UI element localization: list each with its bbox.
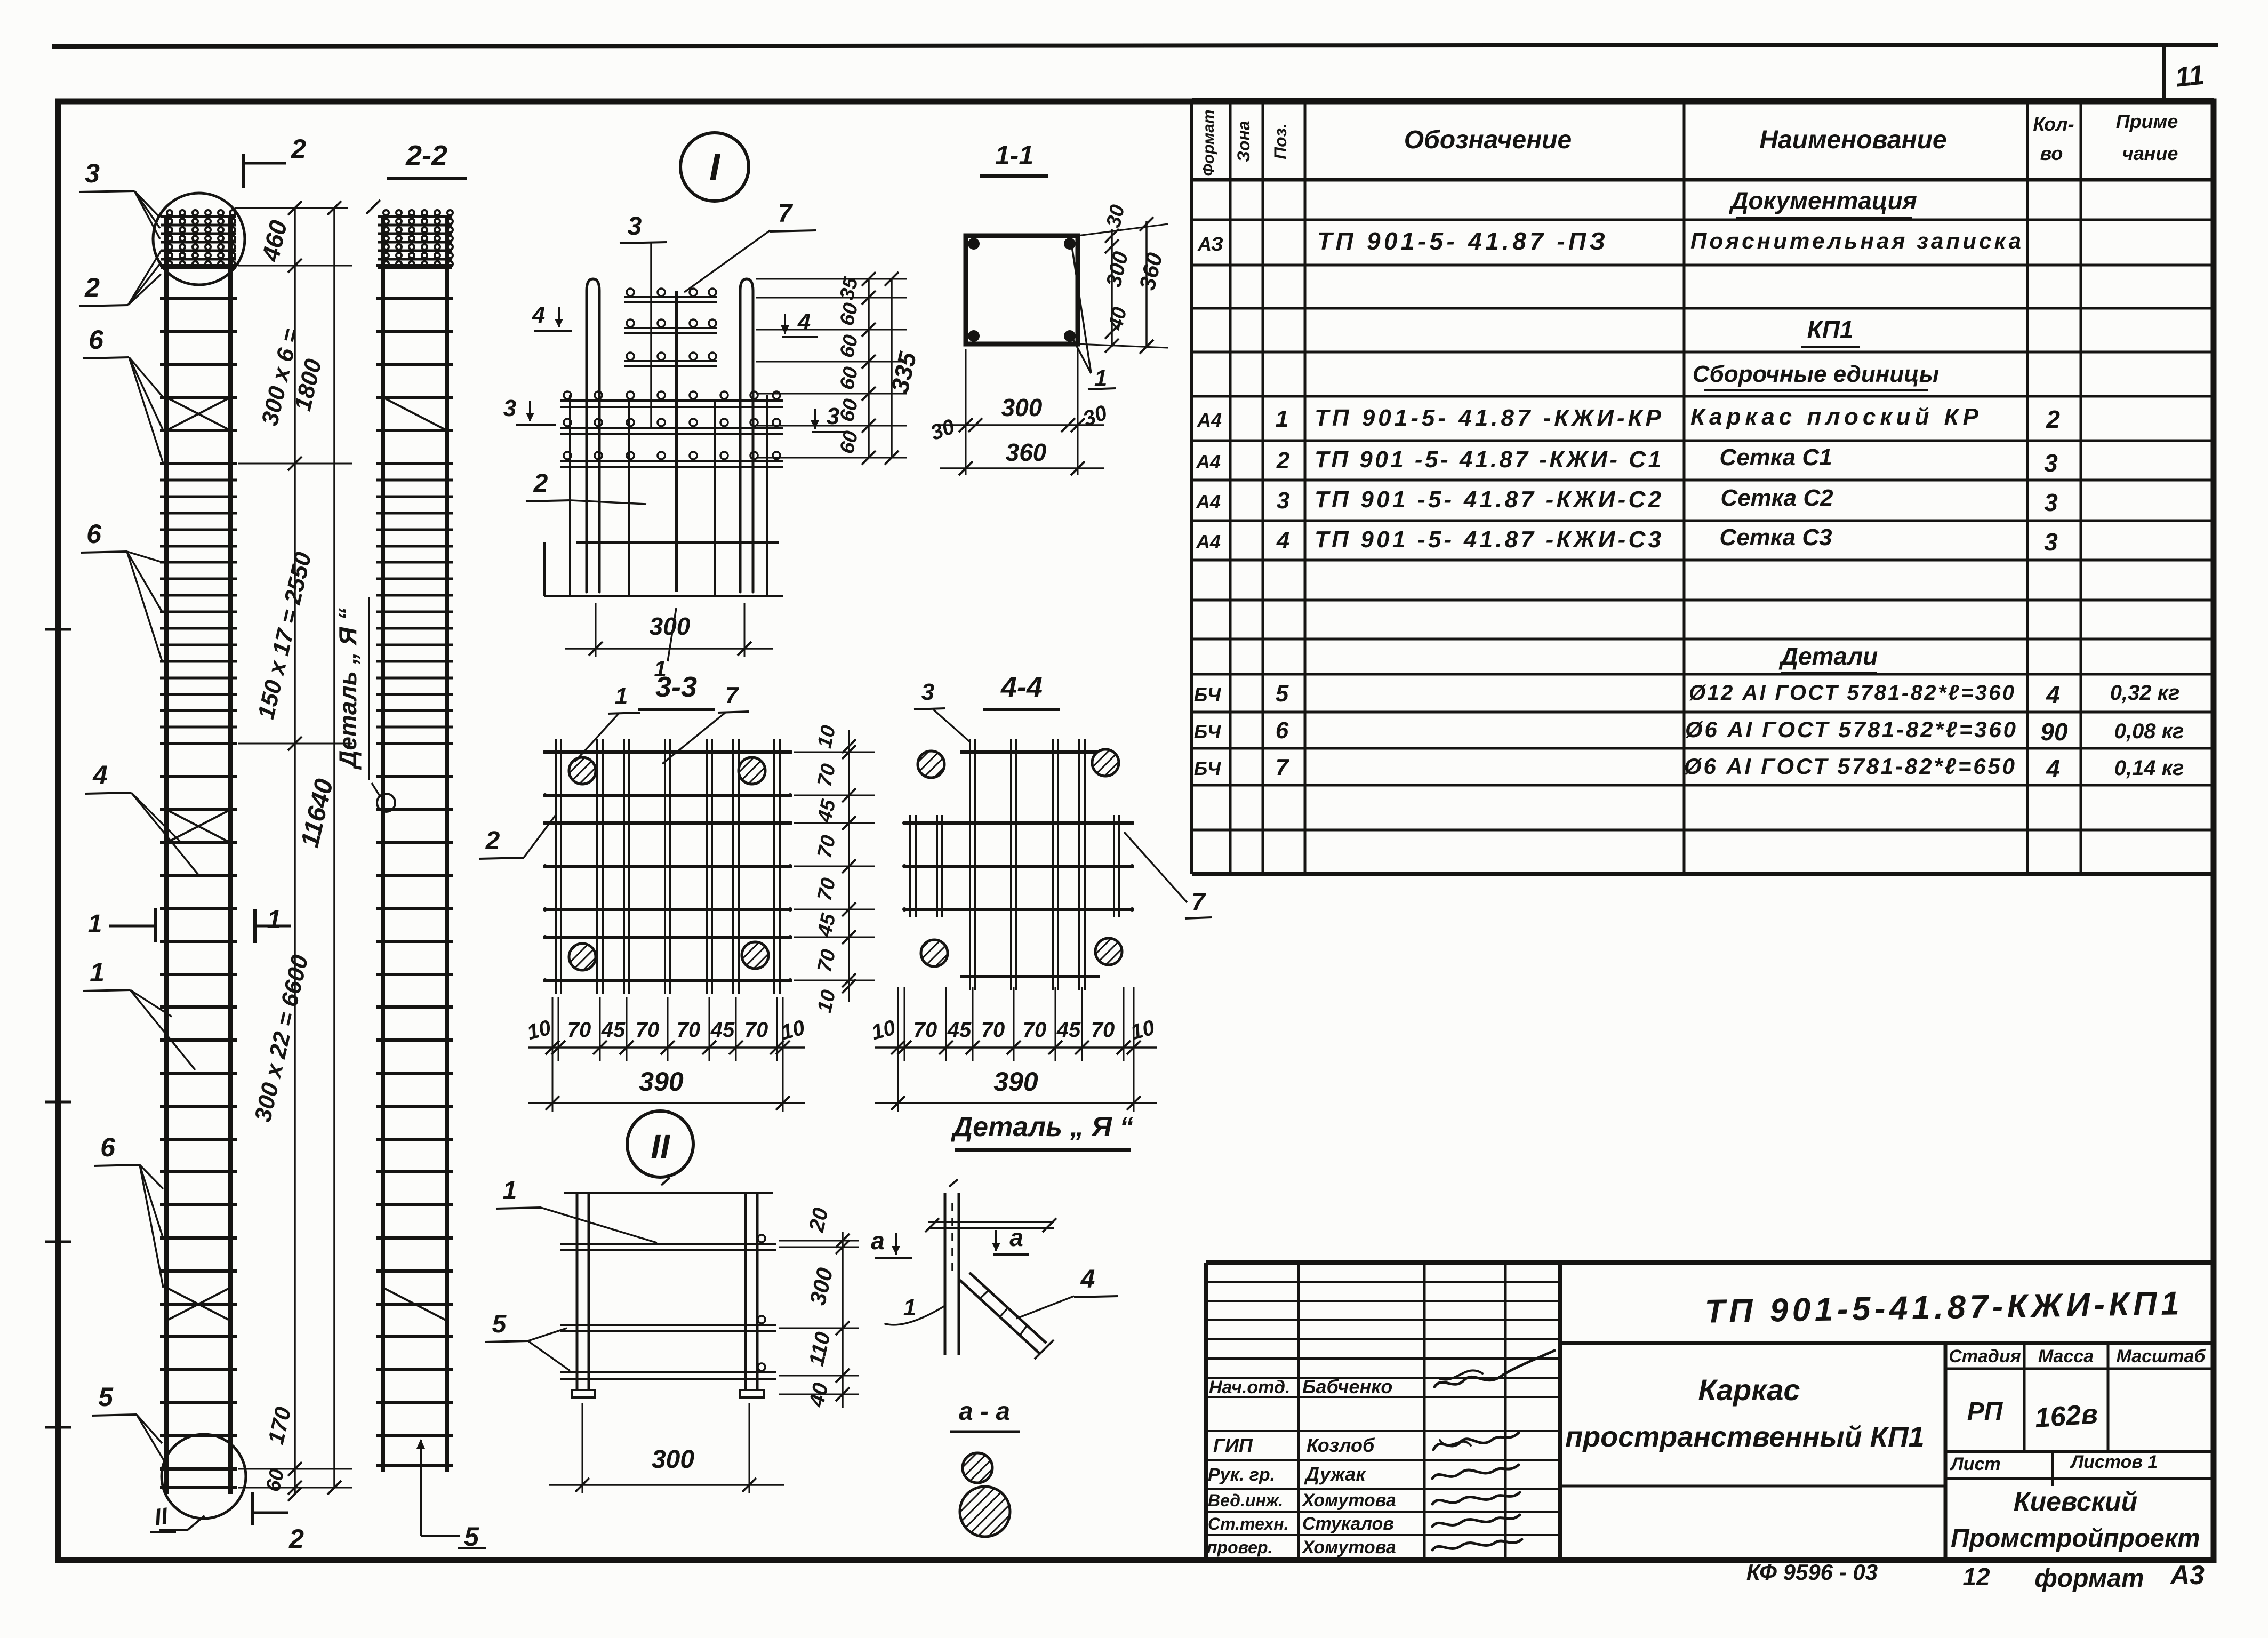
svg-text:Лист: Лист [1949,1454,2000,1474]
view I: inner verticals [569,395,571,596]
svg-text:70: 70 [567,1018,591,1042]
svg-text:БЧ: БЧ [1194,721,1222,742]
svg-text:Нач.отд.: Нач.отд. [1209,1377,1290,1397]
svg-text:3: 3 [1277,488,1289,514]
svg-text:Поз.: Поз. [1271,123,1290,159]
svg-text:2: 2 [485,827,500,855]
svg-text:3: 3 [628,212,642,241]
svg-text:0,32 кг: 0,32 кг [2110,681,2180,705]
cage 2-2: diagonal brace lower [383,1288,447,1321]
svg-text:4: 4 [1080,1265,1095,1293]
svg-text:КФ 9596 - 03: КФ 9596 - 03 [1746,1560,1878,1585]
mesh 4-4: short top and bottom bars [960,750,1100,754]
svg-text:1: 1 [1094,365,1107,391]
view 3-3 overall dimension 390 [528,1102,805,1104]
svg-text:5: 5 [98,1382,114,1412]
cage KP1 elevation: rungs zone 150x17 [160,479,237,482]
view 1-1: hoop square [966,236,1078,344]
svg-text:Зона: Зона [1234,121,1253,162]
svg-text:II: II [651,1128,670,1166]
svg-text:Хомутова: Хомутова [1301,1537,1396,1557]
callout 7 view 4-4 [1124,832,1187,902]
svg-text:70: 70 [913,1018,937,1042]
cage KP1 elevation: X brace lower [166,1288,230,1321]
svg-text:Рук. гр.: Рук. гр. [1208,1465,1275,1485]
detail circle I top [153,193,245,285]
svg-text:ТП 901-5- 41.87 -ПЗ: ТП 901-5- 41.87 -ПЗ [1317,227,1605,255]
detail Ya marker circle [377,794,395,812]
svg-text:1: 1 [1276,406,1288,432]
svg-text:а: а [871,1227,885,1255]
mesh 3-3: corner bar sections [569,757,596,784]
view 3-3 bottom dimension chain [552,997,554,1061]
svg-text:3: 3 [2044,528,2058,556]
svg-text:Каркас плоский КР: Каркас плоский КР [1690,404,1979,430]
svg-text:Каркас: Каркас [1698,1373,1800,1407]
svg-text:I: I [709,146,721,189]
svg-text:45: 45 [947,1018,972,1042]
svg-text:Козлоб: Козлоб [1307,1434,1375,1456]
view I title circle [680,133,749,201]
svg-text:КП1: КП1 [1807,316,1854,343]
svg-text:Сборочные единицы: Сборочные единицы [1693,361,1940,387]
svg-text:6: 6 [86,519,102,549]
view I: top tie bars [624,296,717,298]
view I: right post [740,279,753,592]
view II: top cut line [564,1192,773,1194]
view 1-1: leader to corner bars 1 [1072,246,1091,373]
cage 2-2: right rail [445,215,449,1472]
svg-text:390: 390 [993,1067,1038,1097]
svg-text:Приме: Приме [2116,110,2178,132]
svg-text:Масса: Масса [2038,1346,2094,1367]
svg-text:А4: А4 [1197,409,1222,431]
label II under cage [160,1516,204,1530]
svg-text:0,08 кг: 0,08 кг [2114,720,2184,743]
svg-text:70: 70 [677,1018,701,1042]
view 3-3 right dimension chain [794,752,875,753]
view 1-1: corner bars [968,238,980,250]
svg-text:ТП 901 -5- 41.87 -КЖИ-С3: ТП 901 -5- 41.87 -КЖИ-С3 [1315,526,1661,553]
svg-text:БЧ: БЧ [1194,684,1222,706]
view I: main tie bars [560,399,783,402]
cage KP1 elevation: X brace mid [166,810,230,843]
view I bottom dimension 300 [595,603,597,657]
svg-text:2: 2 [288,1524,304,1554]
svg-text:300: 300 [650,612,691,640]
svg-text:Сетка С3: Сетка С3 [1719,524,1832,550]
svg-text:70: 70 [981,1018,1005,1042]
cage KP1 elevation: top mesh zone [161,215,236,218]
svg-text:Масштаб: Масштаб [2117,1346,2206,1367]
svg-text:6: 6 [100,1132,116,1162]
svg-text:Ø6 АI ГОСТ 5781-82*ℓ=360: Ø6 АI ГОСТ 5781-82*ℓ=360 [1685,717,2016,742]
svg-text:Хомутова: Хомутова [1301,1490,1396,1511]
svg-text:а: а [1009,1224,1023,1251]
svg-text:2: 2 [1276,448,1290,474]
svg-text:чание: чание [2122,142,2178,164]
view II: tie bars [560,1243,776,1245]
title block drawing name [1944,1343,1948,1560]
svg-text:12: 12 [1962,1563,1990,1591]
view I: left post [587,279,599,592]
svg-text:300: 300 [652,1445,694,1474]
svg-text:4: 4 [797,309,811,335]
view II: right post [744,1193,747,1390]
svg-text:Обозначение: Обозначение [1404,126,1572,154]
svg-text:АЗ: АЗ [1197,233,1223,255]
svg-text:6: 6 [1276,717,1289,744]
svg-text:Вед.инж.: Вед.инж. [1208,1491,1283,1510]
svg-text:1: 1 [267,906,282,934]
svg-text:1: 1 [88,910,102,938]
cage KP1 elevation: rungs zone 300x6 [160,264,237,267]
svg-text:162в: 162в [2034,1399,2099,1434]
svg-text:Ø12 АI ГОСТ 5781-82*ℓ=360: Ø12 АI ГОСТ 5781-82*ℓ=360 [1689,681,2014,705]
detail Ya: hidden dash line [951,1203,953,1275]
svg-text:а - а: а - а [959,1397,1010,1426]
cage 2-2: left rail [381,215,385,1472]
svg-text:Сетка С1: Сетка С1 [1719,444,1832,470]
detail circle II bottom [162,1434,246,1519]
svg-text:Наименование: Наименование [1759,126,1946,154]
svg-text:45: 45 [601,1018,626,1042]
svg-text:Деталь „ Я “: Деталь „ Я “ [951,1112,1134,1142]
svg-text:Бабченко: Бабченко [1302,1376,1392,1397]
page top rule [52,45,2218,46]
svg-text:4: 4 [2046,755,2060,782]
svg-text:4: 4 [2046,681,2060,708]
section mark 2 top [242,154,245,188]
svg-text:2: 2 [84,273,100,302]
title block signature grid [1297,1263,1300,1560]
view I right dimension chain [756,278,907,280]
svg-text:3-3: 3-3 [655,671,697,703]
svg-text:во: во [2040,142,2063,164]
svg-text:2: 2 [291,134,306,164]
svg-text:3: 3 [2044,449,2058,477]
detail Ya: bent anchor bar pos4 [960,1280,1040,1354]
view II: left post [576,1193,579,1390]
svg-text:Ст.техн.: Ст.техн. [1208,1514,1288,1533]
svg-text:11: 11 [2174,59,2206,93]
svg-text:Киевский: Киевский [2014,1487,2137,1516]
callout 5 bottom cage2 [420,1440,422,1536]
mesh 4-4: horizontal bars [904,821,1132,825]
cage 2-2: top mesh zone [378,215,452,218]
svg-text:3: 3 [2044,489,2058,516]
svg-text:ТП 901 -5- 41.87 -КЖИ-С2: ТП 901 -5- 41.87 -КЖИ-С2 [1315,486,1662,513]
view 4-4 overall dimension 390 [875,1102,1157,1104]
stadiya massa masshtab header [1945,1368,2214,1370]
cage KP1 elevation: left rail [164,215,169,1494]
cage KP1 elevation: right rail [228,215,233,1494]
svg-text:4-4: 4-4 [1000,671,1043,703]
svg-text:70: 70 [1091,1018,1115,1042]
svg-text:360: 360 [1006,438,1047,466]
svg-text:А4: А4 [1196,491,1221,513]
svg-text:Детали: Детали [1778,642,1878,670]
svg-text:90: 90 [2040,718,2068,746]
svg-text:45: 45 [710,1018,735,1042]
svg-text:1: 1 [615,683,628,709]
svg-text:390: 390 [639,1067,684,1097]
section mark 2 bottom [251,1492,254,1525]
view II bottom dimension 300 [582,1403,583,1493]
svg-text:пространственный КП1: пространственный КП1 [1565,1421,1924,1453]
svg-text:Деталь „ Я “: Деталь „ Я “ [334,608,362,770]
svg-text:БЧ: БЧ [1194,757,1222,779]
svg-text:ГИП: ГИП [1213,1434,1253,1456]
frame centering marks [45,628,71,631]
svg-text:А4: А4 [1196,451,1221,473]
view 4-4 bottom dimension chain [897,987,899,1061]
view II title circle [627,1111,693,1177]
svg-text:А3: А3 [2169,1560,2205,1590]
cage 2-2: rungs [376,264,453,267]
svg-text:1-1: 1-1 [995,140,1033,170]
svg-text:7: 7 [725,682,740,708]
svg-text:РП: РП [1967,1397,2003,1426]
svg-text:7: 7 [778,199,794,228]
svg-text:0,14 кг: 0,14 кг [2114,756,2184,780]
svg-text:1: 1 [503,1177,517,1205]
sheet number cell [2162,46,2166,101]
svg-text:провер.: провер. [1207,1538,1272,1557]
view II right dimension chain [779,1240,859,1242]
section a-a: bar circles hatched [963,1453,992,1483]
view I: lower tie bar [576,541,779,544]
svg-text:Документация: Документация [1728,187,1917,214]
svg-text:ТП 901 -5- 41.87 -КЖИ- С1: ТП 901 -5- 41.87 -КЖИ- С1 [1315,446,1661,473]
svg-text:1: 1 [90,957,105,987]
view 1-1 right dimensions [1078,224,1168,236]
list row [1945,1450,2214,1453]
mesh 3-3: horizontal bars [545,750,790,754]
svg-text:формат: формат [2034,1564,2144,1593]
cage KP1 elevation: bottom rungs [160,1467,237,1471]
view II: post feet [572,1390,595,1397]
view I: base line [544,595,783,597]
mesh 4-4: corner bar sections [918,751,944,778]
svg-text:70: 70 [636,1018,660,1042]
svg-text:Формат: Формат [1200,109,1217,176]
svg-text:3: 3 [921,679,934,705]
view 1-1 bottom dimensions [965,349,967,475]
view I: center bar [675,291,678,592]
mesh 4-4: short vertical stubs on horizontal strip [909,815,911,917]
svg-text:Стукалов: Стукалов [1302,1514,1394,1534]
cage KP1 elevation: rungs zone 300x22 [160,775,237,778]
svg-text:7: 7 [1191,888,1206,915]
cage 2-2 top tick [366,200,380,214]
svg-text:Ø6 АI ГОСТ 5781-82*ℓ=650: Ø6 АI ГОСТ 5781-82*ℓ=650 [1684,754,2015,779]
svg-text:2-2: 2-2 [405,140,447,172]
detail Ya: horizontal bar [928,1221,1054,1223]
specification table grid [1190,100,1193,874]
svg-text:3: 3 [503,395,516,421]
svg-text:45: 45 [1056,1018,1081,1042]
svg-text:70: 70 [1023,1018,1047,1042]
cage 2-2: diagonal brace upper [383,397,447,430]
svg-text:300: 300 [1001,394,1043,421]
svg-text:4: 4 [1276,528,1289,554]
svg-text:4: 4 [532,302,545,328]
svg-text:70: 70 [744,1018,768,1042]
svg-text:5: 5 [1276,681,1289,707]
svg-text:Стадия: Стадия [1949,1346,2021,1367]
svg-text:2: 2 [2046,405,2060,433]
svg-text:А4: А4 [1196,531,1221,553]
svg-text:7: 7 [1276,754,1290,780]
title block outline [1206,1260,2214,1265]
mesh 3-3: vertical bars [555,739,557,994]
svg-text:Листов 1: Листов 1 [2070,1452,2158,1472]
svg-text:Кол-: Кол- [2033,113,2074,135]
svg-text:Сетка С2: Сетка С2 [1720,485,1833,511]
dimension chain cage1 [235,207,348,209]
svg-text:6: 6 [89,325,104,355]
mesh 4-4: vertical bars [969,739,971,990]
svg-text:Промстройпроект: Промстройпроект [1951,1524,2200,1553]
svg-text:2: 2 [533,469,548,498]
svg-text:3: 3 [85,158,100,188]
detail Ya: vertical bar [944,1193,947,1355]
cage KP1 elevation: X brace upper [166,397,230,430]
svg-text:4: 4 [92,760,108,790]
svg-text:5: 5 [492,1310,507,1338]
svg-text:1: 1 [903,1295,916,1321]
svg-text:Дужак: Дужак [1304,1463,1366,1485]
